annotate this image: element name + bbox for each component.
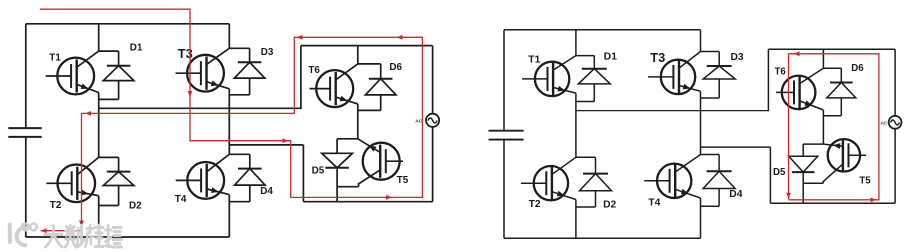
- wire -- midpoint rail leg1 to cell (right circuit): [576, 110, 769, 112]
- red arrow left on cell top (right circuit): [794, 51, 800, 56]
- wire -- T6 branch stub segments (right circuit): [822, 49, 824, 144]
- svg-text:T5: T5: [859, 176, 871, 187]
- label T4: [175, 194, 187, 205]
- transistor T2 (IGBT): [46, 157, 98, 202]
- label T3: [178, 46, 193, 61]
- wire -- bottom DC rail (left circuit): [26, 236, 230, 238]
- label T1: [49, 52, 61, 63]
- label D5: [312, 166, 325, 177]
- svg-text:D2: D2: [603, 199, 616, 210]
- label T2 (right circuit): [529, 199, 541, 210]
- svg-text:D6: D6: [389, 62, 402, 73]
- svg-text:AC: AC: [881, 120, 888, 126]
- ac source (left circuit): [426, 114, 439, 127]
- red arrow left at path end: [41, 228, 47, 233]
- diode D6 (right circuit): [827, 68, 856, 116]
- label D3 (right circuit): [731, 52, 744, 63]
- transistor T2 (IGBT, right circuit): [521, 157, 576, 200]
- label T6 (right circuit): [775, 66, 787, 77]
- label T4 (right circuit): [648, 198, 660, 209]
- svg-text:T6: T6: [775, 66, 787, 77]
- red arrow right on loop bottom (right circuit): [871, 197, 877, 202]
- label T1 (right circuit): [528, 55, 540, 66]
- red arrow down on leg-mid vertical: [188, 91, 193, 97]
- diode D5 (right circuit): [789, 144, 818, 203]
- wire -- D3 bottom jog: [229, 94, 249, 96]
- capacitor C2 (DC-link, right circuit): [489, 131, 524, 140]
- wire -- D3 top jog (right circuit): [701, 51, 720, 53]
- wire -- D2 top jog (right circuit): [576, 156, 596, 158]
- wire -- cell top rail (left circuit): [301, 45, 433, 47]
- ac source (right circuit): [889, 116, 902, 129]
- wire -- leg2 midpoint tap to cell bottom (left circuit): [229, 145, 303, 202]
- svg-text:D4: D4: [260, 186, 273, 197]
- wire -- leg 2 vertical segments (right circuit): [700, 30, 702, 239]
- label T5 (right circuit): [859, 176, 871, 187]
- label T6: [308, 65, 320, 76]
- svg-text:D4: D4: [729, 189, 742, 200]
- diode D3 (right circuit): [703, 52, 735, 99]
- wire -- T5 top jog to D5 branch: [337, 138, 358, 140]
- wire -- leg2 midpoint tap to cell bottom (right circuit): [701, 147, 771, 203]
- wire -- cell right rail with AC gap (right circuit): [894, 49, 896, 203]
- wire -- leg 1 vertical segments (left circuit): [98, 24, 100, 237]
- wire -- D3 top jog: [229, 47, 249, 49]
- svg-text:AC: AC: [415, 118, 422, 124]
- diode D1 (right circuit): [578, 56, 610, 102]
- wire -- D1 top jog: [99, 50, 119, 52]
- label D4: [260, 186, 273, 197]
- label D1 (right circuit): [604, 51, 617, 62]
- diode D3: [234, 48, 265, 95]
- label T2: [50, 200, 62, 211]
- wire -- bottom DC rail (right circuit): [504, 237, 701, 239]
- transistor T1 (IGBT): [46, 51, 99, 94]
- transistor T4 (IGBT, right circuit): [644, 155, 700, 199]
- diode D2: [103, 157, 134, 205]
- wire -- D6 bottom jog: [358, 109, 381, 111]
- wire -- D6 top jog (right circuit): [823, 67, 841, 69]
- svg-text:D3: D3: [731, 52, 744, 63]
- wire -- red commutation path (left circuit): [40, 9, 422, 231]
- wire -- D4 top jog: [229, 153, 250, 155]
- svg-text:D5: D5: [312, 166, 325, 177]
- diode D5: [322, 139, 353, 202]
- wire -- T5 emitter return jog (right circuit): [803, 181, 823, 183]
- wire -- cell left rail upper segment (right circuit): [767, 49, 769, 111]
- wire -- D6 top jog: [358, 63, 381, 65]
- wire -- leg 1 vertical segments (right circuit): [575, 30, 577, 239]
- wire -- cell bottom rail (left circuit): [303, 201, 432, 203]
- transistor T3 (IGBT): [176, 48, 230, 91]
- wire -- D4 top jog (right circuit): [701, 154, 720, 156]
- diode D6: [365, 64, 396, 111]
- label AC (right circuit): [881, 120, 888, 126]
- svg-text:D6: D6: [851, 63, 864, 74]
- wire -- leg 2 vertical segments (left circuit): [228, 24, 230, 237]
- wire -- cell bottom rail (right circuit): [770, 202, 895, 204]
- wire -- midpoint rail leg1 to cell (left circuit): [99, 107, 301, 109]
- transistor T3 (IGBT, right circuit): [648, 52, 701, 95]
- label T3 (right circuit): [650, 50, 665, 65]
- label D4 (right circuit): [729, 189, 742, 200]
- label T5: [397, 175, 409, 186]
- wire -- cell left rail upper segment (left circuit): [300, 46, 302, 110]
- watermark logo and text (decorative): [10, 224, 122, 248]
- wire -- T6 branch stub segments: [357, 46, 359, 139]
- svg-text:T4: T4: [175, 194, 187, 205]
- svg-text:D2: D2: [129, 200, 142, 211]
- label D5 (right circuit): [773, 167, 786, 178]
- label D6: [389, 62, 402, 73]
- wire -- T5 top jog to D5 branch (right circuit): [803, 143, 823, 145]
- wire -- D1 bottom jog (right circuit): [576, 101, 594, 103]
- label D6 (right circuit): [851, 63, 864, 74]
- capacitor C1 (DC-link, left circuit): [8, 128, 41, 137]
- svg-text:D1: D1: [130, 42, 143, 53]
- svg-text:T2: T2: [50, 200, 62, 211]
- red arrow left on cell top (left): [297, 35, 303, 40]
- wire -- D2 top jog: [99, 156, 119, 158]
- transistor T1 (IGBT, right circuit): [522, 56, 576, 97]
- svg-text:T4: T4: [648, 198, 660, 209]
- diode D4: [235, 154, 266, 201]
- wire -- cell right rail with AC gap (left circuit): [432, 46, 434, 202]
- transistor T6 (IGBT, right circuit): [776, 68, 823, 110]
- red arrow right toward cell: [283, 138, 289, 143]
- wire -- cell top rail (right circuit): [768, 48, 895, 50]
- red arrow down at loop left bottom (right circuit): [786, 193, 791, 199]
- svg-text:D5: D5: [773, 167, 786, 178]
- transistor T5 (IGBT, rotated): [358, 139, 403, 185]
- transistor T6 (IGBT): [310, 64, 358, 107]
- svg-text:T1: T1: [49, 52, 61, 63]
- wire -- T5 emitter return jog: [337, 184, 359, 187]
- label AC (left circuit): [415, 118, 422, 124]
- svg-text:T5: T5: [397, 175, 409, 186]
- wire -- top DC rail (left circuit): [26, 23, 230, 25]
- svg-text:T2: T2: [529, 199, 541, 210]
- diode D1: [103, 51, 134, 99]
- svg-text:T3: T3: [650, 50, 665, 65]
- label D1: [130, 42, 143, 53]
- transistor T5 (IGBT, rotated, right circuit): [823, 139, 866, 182]
- red arrow down near bottom rail: [79, 221, 84, 227]
- wire -- D1 bottom jog: [99, 98, 119, 100]
- wire -- D4 bottom jog: [229, 201, 250, 203]
- red arrow left on midpoint line: [85, 111, 91, 116]
- svg-text:D1: D1: [604, 51, 617, 62]
- red arrow left on cell top (right): [397, 35, 403, 40]
- diode D4 (right circuit): [703, 155, 735, 207]
- wire -- D4 bottom jog (right circuit): [701, 205, 720, 207]
- transistor T4 (IGBT): [176, 154, 230, 199]
- wire -- D6 bottom jog (right circuit): [823, 115, 841, 117]
- wire -- D1 top jog (right circuit): [576, 55, 594, 57]
- label D3: [261, 47, 274, 58]
- label D2: [129, 200, 142, 211]
- svg-text:D3: D3: [261, 47, 274, 58]
- wire -- left DC rail (left circuit): [25, 24, 27, 237]
- label D2 (right circuit): [603, 199, 616, 210]
- wire -- D3 bottom jog (right circuit): [701, 97, 720, 99]
- wire -- top DC rail (right circuit): [504, 29, 701, 31]
- svg-text:T6: T6: [308, 65, 320, 76]
- red arrow right on cell bottom: [386, 195, 392, 200]
- diode D2 (right circuit): [580, 157, 612, 207]
- wire -- D2 bottom jog: [99, 205, 119, 207]
- wire -- left DC rail (right circuit): [503, 30, 505, 239]
- wire -- red commutation loop (right circuit): [789, 54, 879, 200]
- svg-text:T1: T1: [528, 55, 540, 66]
- wire -- D2 bottom jog (right circuit): [576, 206, 596, 208]
